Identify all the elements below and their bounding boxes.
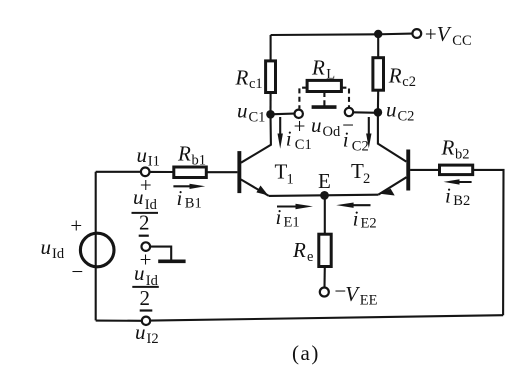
- wire Re bottom to -VEE terminal: [323, 267, 325, 288]
- svg-text:2: 2: [140, 286, 151, 310]
- ground mid tap: [158, 259, 185, 263]
- svg-text:E1: E1: [284, 215, 300, 231]
- wire from rail down to Rc2: [377, 34, 379, 58]
- svg-text:E: E: [318, 169, 331, 193]
- svg-text:−: −: [70, 260, 84, 284]
- svg-text:c2: c2: [402, 74, 416, 90]
- terminal uI1: [141, 168, 150, 177]
- label minus of upper half source: [139, 235, 149, 237]
- label minus of source: [70, 260, 84, 284]
- wire top VCC rail: [271, 34, 413, 35]
- label iE1: [276, 205, 300, 231]
- label -VEE: [333, 279, 378, 309]
- wire bottom rail left segment: [96, 320, 142, 322]
- svg-text:u: u: [237, 98, 248, 122]
- node E: [320, 191, 329, 200]
- svg-text:+: +: [69, 214, 83, 238]
- wire right output terminal to node uC2: [353, 111, 378, 114]
- terminal mid tap: [142, 242, 151, 251]
- wire T2 base to Rb2: [410, 169, 439, 171]
- arrow iB2: [444, 179, 472, 184]
- arrow iC1: [278, 117, 283, 149]
- wire Rc1 bottom to node uC1: [269, 93, 271, 115]
- svg-text:i: i: [343, 128, 349, 152]
- label minus of lower half source: [140, 309, 153, 311]
- transistor T1 base bar: [237, 151, 241, 193]
- node uC2: [374, 108, 383, 117]
- label RL: [311, 56, 335, 83]
- svg-text:C1: C1: [249, 109, 266, 125]
- transistor T2 emitter with arrow: [378, 177, 406, 195]
- wire bottom rail right segment: [150, 315, 503, 320]
- label (a): [292, 341, 320, 365]
- svg-text:V: V: [437, 22, 452, 46]
- label plus of source: [69, 214, 83, 238]
- svg-text:2: 2: [363, 171, 370, 187]
- label iB2: [445, 183, 470, 209]
- svg-text:(a): (a): [292, 341, 320, 365]
- node uC1: [266, 110, 275, 119]
- svg-text:R: R: [388, 63, 402, 87]
- svg-text:b1: b1: [192, 153, 207, 169]
- label Rc2: [388, 63, 416, 90]
- svg-text:u: u: [386, 98, 397, 122]
- label Rb1: [177, 142, 206, 169]
- wire uI1 terminal to Rb1: [150, 171, 174, 173]
- wire left rail to uI1 terminal: [96, 171, 141, 173]
- svg-text:L: L: [326, 67, 335, 83]
- svg-text:b2: b2: [455, 146, 470, 162]
- label plus under mid tap: [138, 248, 152, 272]
- label E: [318, 169, 331, 193]
- svg-text:u: u: [311, 113, 322, 137]
- label iB1: [177, 186, 202, 211]
- label Re: [292, 238, 313, 265]
- label uC2: [386, 98, 414, 125]
- label T2: [351, 159, 370, 187]
- terminal +VCC: [412, 29, 421, 38]
- wire dashed RL left lead: [299, 88, 307, 109]
- svg-text:1: 1: [287, 171, 294, 187]
- svg-text:V: V: [345, 282, 360, 306]
- svg-text:e: e: [307, 249, 313, 265]
- svg-text:C2: C2: [352, 138, 369, 154]
- svg-text:u: u: [134, 261, 145, 285]
- wire dashed RL right lead: [341, 88, 349, 108]
- label uC1: [237, 98, 265, 125]
- label uI2: [135, 320, 159, 347]
- label fraction uId/2 upper: [132, 185, 159, 235]
- terminal -VEE: [320, 288, 329, 297]
- resistor Rc1: [266, 61, 276, 93]
- resistor RL: [307, 80, 341, 91]
- label +VCC: [424, 22, 472, 49]
- svg-text:I2: I2: [147, 331, 159, 347]
- node top (junction of Rc2 branch and VCC rail): [374, 30, 382, 38]
- arrow iC2: [366, 117, 371, 148]
- svg-text:R: R: [235, 66, 249, 90]
- svg-text:CC: CC: [452, 33, 471, 49]
- terminal uI2: [142, 317, 150, 325]
- wire mid tap to ground: [150, 247, 171, 260]
- svg-text:u: u: [135, 320, 146, 344]
- resistor Re: [319, 234, 331, 266]
- svg-text:i: i: [177, 186, 183, 210]
- wire Rb2 to right rail corner: [473, 170, 504, 315]
- svg-text:R: R: [441, 135, 455, 159]
- transistor T2 collector: [378, 112, 406, 162]
- arrow iB1: [173, 184, 205, 189]
- terminal output left: [295, 110, 303, 118]
- wire from rail down to Rc1: [270, 35, 272, 61]
- svg-text:i: i: [445, 183, 451, 207]
- wire uC1 node to left output terminal: [271, 113, 295, 116]
- arrow iE2: [336, 203, 370, 208]
- svg-text:R: R: [292, 238, 306, 262]
- label fraction uId/2 lower: [132, 261, 159, 310]
- label T1: [275, 159, 294, 187]
- resistor Rb1: [174, 167, 207, 178]
- wire E node down to Re: [324, 195, 326, 234]
- resistor Rc2: [373, 58, 384, 90]
- wire left rail vertical: [95, 172, 97, 321]
- label plus under uI1: [139, 173, 153, 197]
- transistor T1 emitter with arrow: [241, 179, 269, 196]
- svg-text:+: +: [424, 22, 438, 46]
- terminal output right: [345, 108, 353, 116]
- svg-text:Od: Od: [323, 124, 341, 140]
- svg-text:I1: I1: [148, 153, 160, 169]
- svg-text:i: i: [286, 127, 292, 151]
- label uOd with polarity: [292, 113, 355, 140]
- svg-text:i: i: [276, 205, 282, 229]
- svg-text:E2: E2: [361, 216, 377, 232]
- svg-text:C1: C1: [295, 137, 312, 153]
- svg-text:B1: B1: [185, 195, 202, 211]
- svg-text:C2: C2: [398, 108, 415, 124]
- svg-text:EE: EE: [360, 293, 378, 309]
- svg-text:Id: Id: [52, 246, 65, 262]
- svg-text:R: R: [177, 142, 191, 166]
- label Rb2: [441, 135, 470, 162]
- label iC2: [343, 128, 369, 155]
- wire Rc2 bottom to node uC2: [377, 90, 379, 112]
- svg-text:u: u: [133, 185, 144, 209]
- wire Rb1 to T1 base: [206, 171, 237, 173]
- label iC1: [286, 127, 312, 154]
- arrow iE1: [277, 204, 313, 209]
- label iE2: [353, 206, 377, 231]
- transistor T1 collector: [241, 114, 271, 162]
- svg-text:c1: c1: [249, 76, 263, 92]
- ground under RL: [312, 92, 337, 108]
- svg-text:i: i: [353, 206, 359, 230]
- svg-text:B2: B2: [453, 193, 470, 209]
- svg-text:u: u: [41, 235, 52, 259]
- label uI1: [137, 143, 160, 169]
- source uId circle: [80, 233, 114, 267]
- wire emitter rail: [269, 195, 379, 196]
- resistor Rb2: [440, 165, 473, 175]
- transistor T2 base bar: [406, 150, 410, 191]
- label uId source: [41, 235, 65, 262]
- svg-text:R: R: [311, 56, 325, 80]
- svg-text:2: 2: [139, 210, 150, 234]
- label Rc1: [235, 66, 263, 92]
- svg-text:u: u: [137, 143, 148, 167]
- svg-text:+: +: [292, 114, 306, 138]
